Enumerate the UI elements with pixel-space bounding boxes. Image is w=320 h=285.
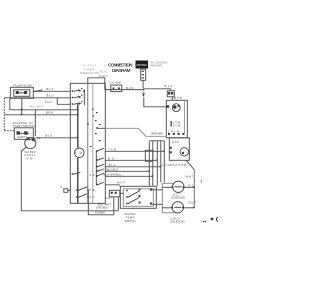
svg-text:MTR: MTR xyxy=(174,96,182,100)
svg-text:V-BLK: V-BLK xyxy=(105,163,116,167)
svg-text:LID SW: LID SW xyxy=(110,81,121,85)
svg-text:4B: 4B xyxy=(90,188,95,192)
svg-text:PUSH IN SW: PUSH IN SW xyxy=(14,84,32,88)
svg-text:PU-WHT: PU-WHT xyxy=(95,211,105,215)
svg-text:2M: 2M xyxy=(168,130,173,133)
svg-text:EMPTY: EMPTY xyxy=(18,135,28,139)
svg-text:BLK: BLK xyxy=(165,84,173,88)
svg-text:PUSH-PULL OFF: PUSH-PULL OFF xyxy=(80,71,99,75)
svg-text:ORG-BLK: ORG-BLK xyxy=(96,206,108,210)
svg-text:COLD: COLD xyxy=(188,200,196,204)
svg-text:ALL-WHT: ALL-WHT xyxy=(30,104,44,108)
svg-text:5: 5 xyxy=(61,185,63,189)
svg-text:1M: 1M xyxy=(174,130,179,133)
svg-text:L CAPACITOR: L CAPACITOR xyxy=(162,163,186,167)
svg-text:GRY: GRY xyxy=(106,196,113,200)
svg-text:BLK: BLK xyxy=(100,69,106,73)
svg-text:REV A SHT 1: REV A SHT 1 xyxy=(151,64,164,68)
svg-text:WHT: WHT xyxy=(117,181,125,185)
svg-text:BRN-WHT: BRN-WHT xyxy=(152,131,164,135)
svg-text:TAN: TAN xyxy=(108,147,116,151)
svg-text:BLU: BLU xyxy=(47,93,54,97)
svg-text:SW: SW xyxy=(27,156,34,160)
svg-text:BLK: BLK xyxy=(47,87,54,91)
svg-text:BU: BU xyxy=(108,156,114,160)
svg-text:TAN: TAN xyxy=(45,100,52,104)
svg-text:4C: 4C xyxy=(90,195,95,199)
svg-text:MAYTAG: MAYTAG xyxy=(137,63,148,67)
svg-text:CAP: CAP xyxy=(172,140,179,144)
svg-text:BLK: BLK xyxy=(126,86,133,90)
svg-text:BLK-WH-BLU: BLK-WH-BLU xyxy=(104,172,122,176)
svg-text:SOLENOID: SOLENOID xyxy=(171,196,185,200)
svg-text:2TM: 2TM xyxy=(173,124,181,128)
svg-text:START SWITCH: START SWITCH xyxy=(13,124,35,128)
svg-text:4A: 4A xyxy=(90,173,95,177)
svg-text:BLU-BLK: BLU-BLK xyxy=(106,167,118,171)
svg-text:SWITCH: SWITCH xyxy=(125,219,136,223)
svg-text:BRN: BRN xyxy=(46,110,53,114)
svg-text:TIMER: TIMER xyxy=(84,67,94,71)
svg-text:TM: TM xyxy=(75,151,83,155)
svg-text:DIAGRAM: DIAGRAM xyxy=(112,68,131,73)
svg-text:WHT: WHT xyxy=(186,174,194,178)
svg-text:SOLENOID: SOLENOID xyxy=(171,220,185,224)
svg-text:B-BLK: B-BLK xyxy=(99,74,108,78)
svg-text:FULL: FULL xyxy=(33,136,41,140)
svg-text:R1: R1 xyxy=(189,184,194,188)
svg-text:CONNECTION: CONNECTION xyxy=(108,62,133,67)
svg-text:BLK: BLK xyxy=(46,133,53,137)
